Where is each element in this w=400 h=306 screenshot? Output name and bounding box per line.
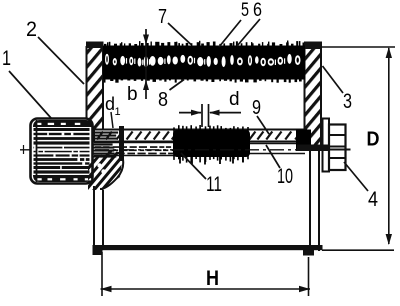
- svg-text:10: 10: [277, 165, 293, 188]
- label 4 leader to bolt: [344, 162, 378, 211]
- discharge chute (hatched wedge): [60, 140, 176, 202]
- label 10 leader to rod: [266, 145, 293, 188]
- dimension H line with arrows: [101, 286, 311, 292]
- rod right section: [248, 144, 305, 154]
- collar on rod: [119, 126, 124, 161]
- dimension b arrows: [143, 29, 149, 99]
- rod gland at left wall: [86, 132, 118, 158]
- label 3 leader to right wall: [323, 66, 353, 113]
- dimension d ticks and arrows: [179, 104, 241, 127]
- wire brush 11 on rod: [173, 125, 250, 165]
- svg-text:1: 1: [115, 106, 121, 118]
- svg-text:4: 4: [368, 188, 378, 211]
- right leg of housing: [310, 150, 319, 252]
- svg-text:2: 2: [26, 18, 37, 41]
- knurled knob 1: [31, 119, 93, 184]
- svg-text:1: 1: [2, 47, 11, 70]
- strip end boss at right wall: [296, 130, 311, 152]
- clamp washer plate: [323, 119, 330, 172]
- svg-text:d: d: [105, 94, 115, 114]
- label 5 leader to band: [219, 0, 249, 47]
- threaded rod left section: [94, 143, 182, 156]
- right end wall 3 (hatched): [304, 42, 322, 151]
- svg-text:b: b: [127, 84, 138, 105]
- svg-text:5: 5: [241, 0, 249, 21]
- dimension D line with arrows: [386, 47, 392, 245]
- svg-text:H: H: [206, 267, 219, 290]
- label 9 leader to strip: [252, 97, 269, 134]
- svg-text:8: 8: [158, 89, 168, 111]
- abrasive band 8 with coil windings 5 and 6: [103, 41, 305, 83]
- label 11 leader to brush: [181, 153, 222, 196]
- label d1 with leader: [105, 94, 121, 128]
- label 2 leader to left wall: [26, 18, 84, 84]
- dimension H extension lines: [102, 252, 309, 296]
- svg-text:d: d: [229, 89, 240, 110]
- left leg of housing: [94, 186, 103, 247]
- label 7 leader to band: [158, 6, 191, 45]
- svg-text:11: 11: [206, 173, 222, 196]
- bottom plate: [93, 245, 323, 256]
- axis centerline: [20, 145, 350, 154]
- dimension D extension lines: [321, 47, 395, 250]
- bolt 4 head: [329, 125, 346, 171]
- svg-text:9: 9: [252, 97, 261, 119]
- bolt tail centerline: [330, 149, 351, 151]
- svg-text:7: 7: [158, 6, 167, 28]
- support strip 9 (hatched bar): [94, 130, 306, 142]
- label 1 leader to knob: [2, 47, 51, 118]
- label 6 leader to band: [237, 0, 262, 46]
- svg-text:D: D: [367, 129, 380, 151]
- label 8 leader to band: [158, 80, 184, 112]
- svg-text:6: 6: [253, 0, 262, 21]
- svg-text:3: 3: [343, 90, 352, 113]
- left end wall 2 (hatched): [86, 42, 104, 133]
- boss at wall-bolt joint: [297, 145, 330, 152]
